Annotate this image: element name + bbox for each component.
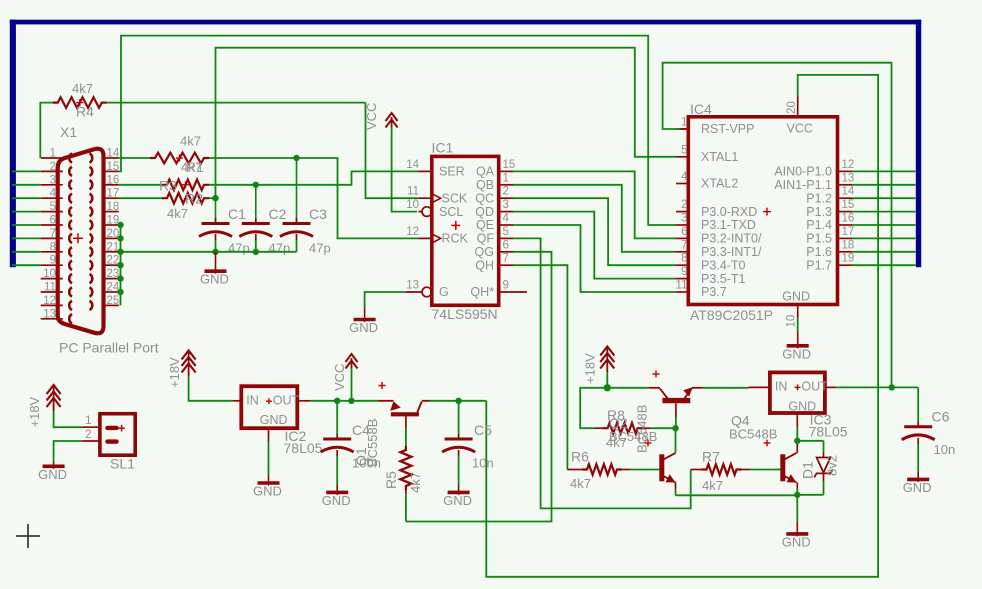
svg-text:4k7: 4k7 <box>702 478 723 493</box>
svg-text:15: 15 <box>503 159 516 171</box>
svg-text:SL1: SL1 <box>110 456 135 472</box>
svg-text:1: 1 <box>503 172 509 184</box>
svg-text:QH*: QH* <box>470 285 494 299</box>
svg-text:P3.5-T1: P3.5-T1 <box>701 272 746 286</box>
svg-text:7: 7 <box>681 239 687 251</box>
svg-text:AIN1-P1.1: AIN1-P1.1 <box>774 178 832 192</box>
svg-text:1: 1 <box>681 117 687 129</box>
svg-text:9: 9 <box>503 280 509 292</box>
svg-text:P1.7: P1.7 <box>806 258 832 272</box>
svg-text:SER: SER <box>439 165 465 179</box>
svg-text:P3.3-INT1/: P3.3-INT1/ <box>701 245 762 259</box>
svg-text:C1: C1 <box>228 206 246 222</box>
svg-text:78L05: 78L05 <box>284 440 323 456</box>
svg-text:P3.7: P3.7 <box>701 285 727 299</box>
svg-text:GND: GND <box>349 320 378 335</box>
svg-text:GND: GND <box>782 290 810 304</box>
svg-text:47p: 47p <box>269 241 291 256</box>
svg-text:7: 7 <box>50 228 56 240</box>
svg-text:QG: QG <box>475 245 494 259</box>
svg-text:QD: QD <box>475 205 494 219</box>
svg-text:2: 2 <box>503 186 509 198</box>
svg-text:P3.4-T0: P3.4-T0 <box>701 258 746 272</box>
svg-text:XTAL1: XTAL1 <box>701 150 738 164</box>
svg-text:P3.2-INT0/: P3.2-INT0/ <box>701 232 762 246</box>
svg-text:10: 10 <box>786 315 798 328</box>
svg-text:R6: R6 <box>571 449 589 465</box>
svg-text:BC558B: BC558B <box>365 419 380 467</box>
svg-text:10n: 10n <box>472 456 494 471</box>
svg-text:4: 4 <box>503 213 510 225</box>
svg-text:17: 17 <box>842 226 855 238</box>
svg-text:BC548B: BC548B <box>729 427 777 442</box>
svg-text:8: 8 <box>50 241 56 253</box>
svg-text:VCC: VCC <box>787 121 813 135</box>
svg-text:14: 14 <box>842 186 855 198</box>
svg-text:1: 1 <box>85 415 91 427</box>
svg-text:8: 8 <box>681 253 687 265</box>
svg-text:11: 11 <box>44 282 56 294</box>
svg-text:GND: GND <box>253 484 282 499</box>
svg-text:R4: R4 <box>76 104 94 120</box>
svg-text:19: 19 <box>842 253 855 265</box>
svg-text:3: 3 <box>50 174 56 186</box>
svg-text:C2: C2 <box>269 206 287 222</box>
svg-text:C6: C6 <box>932 409 950 425</box>
svg-text:IC4: IC4 <box>690 101 712 117</box>
svg-text:4k7: 4k7 <box>72 81 93 96</box>
svg-text:R5: R5 <box>383 471 399 489</box>
svg-text:IN: IN <box>246 394 258 408</box>
svg-text:13: 13 <box>842 172 855 184</box>
svg-text:+18V: +18V <box>583 353 598 384</box>
svg-text:SCK: SCK <box>442 191 468 205</box>
svg-text:7: 7 <box>503 253 509 265</box>
svg-text:5: 5 <box>50 201 56 213</box>
svg-text:14: 14 <box>406 159 419 171</box>
svg-text:PC Parallel Port: PC Parallel Port <box>59 340 159 356</box>
svg-text:P1.4: P1.4 <box>806 218 832 232</box>
svg-text:16: 16 <box>842 213 855 225</box>
svg-text:BC548B: BC548B <box>635 405 650 453</box>
svg-text:2: 2 <box>681 199 687 211</box>
svg-text:P1.6: P1.6 <box>806 245 832 259</box>
svg-text:IN: IN <box>775 380 788 394</box>
svg-text:R1: R1 <box>186 159 204 175</box>
svg-text:+18V: +18V <box>167 357 182 388</box>
svg-text:11: 11 <box>407 186 419 198</box>
svg-text:4k7: 4k7 <box>408 472 423 493</box>
svg-text:4: 4 <box>681 171 688 183</box>
svg-text:3: 3 <box>503 199 509 211</box>
svg-text:17: 17 <box>107 188 120 200</box>
svg-text:47p: 47p <box>228 241 250 256</box>
svg-text:OUT: OUT <box>273 394 300 408</box>
svg-text:BC548B: BC548B <box>609 429 657 444</box>
svg-text:47p: 47p <box>309 241 331 256</box>
svg-text:IC1: IC1 <box>432 140 454 156</box>
svg-text:4: 4 <box>50 188 57 200</box>
svg-text:4k7: 4k7 <box>570 476 591 491</box>
svg-text:12: 12 <box>842 159 855 171</box>
svg-text:13: 13 <box>406 280 419 292</box>
svg-text:XTAL2: XTAL2 <box>701 177 738 191</box>
svg-text:RCK: RCK <box>442 232 469 246</box>
svg-text:25: 25 <box>107 295 120 307</box>
svg-text:78L05: 78L05 <box>809 423 848 439</box>
svg-text:AIN0-P1.0: AIN0-P1.0 <box>774 165 832 179</box>
svg-text:OUT: OUT <box>801 380 828 394</box>
svg-text:GND: GND <box>200 272 229 287</box>
svg-text:10n: 10n <box>934 442 956 457</box>
svg-text:74LS595N: 74LS595N <box>432 306 498 322</box>
svg-text:D1: D1 <box>800 461 816 479</box>
svg-text:SCL: SCL <box>439 205 463 219</box>
svg-text:5: 5 <box>681 144 687 156</box>
svg-text:2: 2 <box>85 429 91 441</box>
svg-text:14: 14 <box>107 148 120 160</box>
svg-text:QA: QA <box>476 165 495 179</box>
svg-text:1: 1 <box>50 148 56 160</box>
svg-text:11: 11 <box>676 280 688 292</box>
svg-text:VCC: VCC <box>332 364 347 391</box>
svg-text:6: 6 <box>503 239 509 251</box>
svg-text:P3.0-RXD: P3.0-RXD <box>701 205 757 219</box>
svg-text:QB: QB <box>476 178 494 192</box>
svg-text:16: 16 <box>107 174 120 186</box>
svg-text:P3.1-TXD: P3.1-TXD <box>701 218 756 232</box>
svg-text:2: 2 <box>50 161 56 173</box>
svg-text:RST-VPP: RST-VPP <box>701 122 755 136</box>
svg-text:G: G <box>439 285 449 299</box>
svg-text:AT89C2051P: AT89C2051P <box>690 307 773 323</box>
svg-text:9: 9 <box>681 266 687 278</box>
svg-text:P1.3: P1.3 <box>806 205 832 219</box>
svg-text:QH: QH <box>475 258 494 272</box>
svg-text:10: 10 <box>43 268 56 280</box>
svg-text:VCC: VCC <box>364 103 379 130</box>
svg-text:18: 18 <box>842 239 855 251</box>
svg-text:4k7: 4k7 <box>167 206 188 221</box>
svg-text:P1.2: P1.2 <box>806 191 832 205</box>
svg-text:+18V: +18V <box>27 396 42 427</box>
svg-text:GND: GND <box>260 413 288 427</box>
svg-text:15: 15 <box>842 199 855 211</box>
svg-text:GND: GND <box>903 480 932 495</box>
svg-text:12: 12 <box>43 295 56 307</box>
svg-text:10: 10 <box>406 199 419 211</box>
svg-text:R7: R7 <box>702 449 720 465</box>
svg-text:6: 6 <box>681 226 687 238</box>
svg-text:GND: GND <box>38 467 67 482</box>
svg-text:C3: C3 <box>309 206 327 222</box>
svg-text:12: 12 <box>406 226 419 238</box>
svg-text:GND: GND <box>782 346 811 361</box>
svg-text:GND: GND <box>443 493 472 508</box>
svg-text:P1.5: P1.5 <box>806 232 832 246</box>
svg-text:5: 5 <box>503 226 509 238</box>
svg-text:QC: QC <box>475 191 494 205</box>
svg-text:20: 20 <box>786 101 798 114</box>
svg-text:GND: GND <box>322 493 351 508</box>
svg-text:GND: GND <box>782 534 811 549</box>
svg-text:C5: C5 <box>474 422 492 438</box>
svg-text:13: 13 <box>43 308 56 320</box>
svg-text:9: 9 <box>50 255 56 267</box>
svg-text:QE: QE <box>476 218 494 232</box>
svg-text:QF: QF <box>477 232 495 246</box>
svg-text:R3: R3 <box>159 178 177 194</box>
svg-text:15: 15 <box>107 161 120 173</box>
svg-text:3: 3 <box>681 213 687 225</box>
svg-text:X1: X1 <box>60 124 77 140</box>
svg-text:18: 18 <box>107 201 120 213</box>
svg-text:R2: R2 <box>185 191 203 207</box>
svg-text:6: 6 <box>50 215 56 227</box>
svg-text:4k7: 4k7 <box>180 134 201 149</box>
svg-text:8v2: 8v2 <box>825 455 840 476</box>
